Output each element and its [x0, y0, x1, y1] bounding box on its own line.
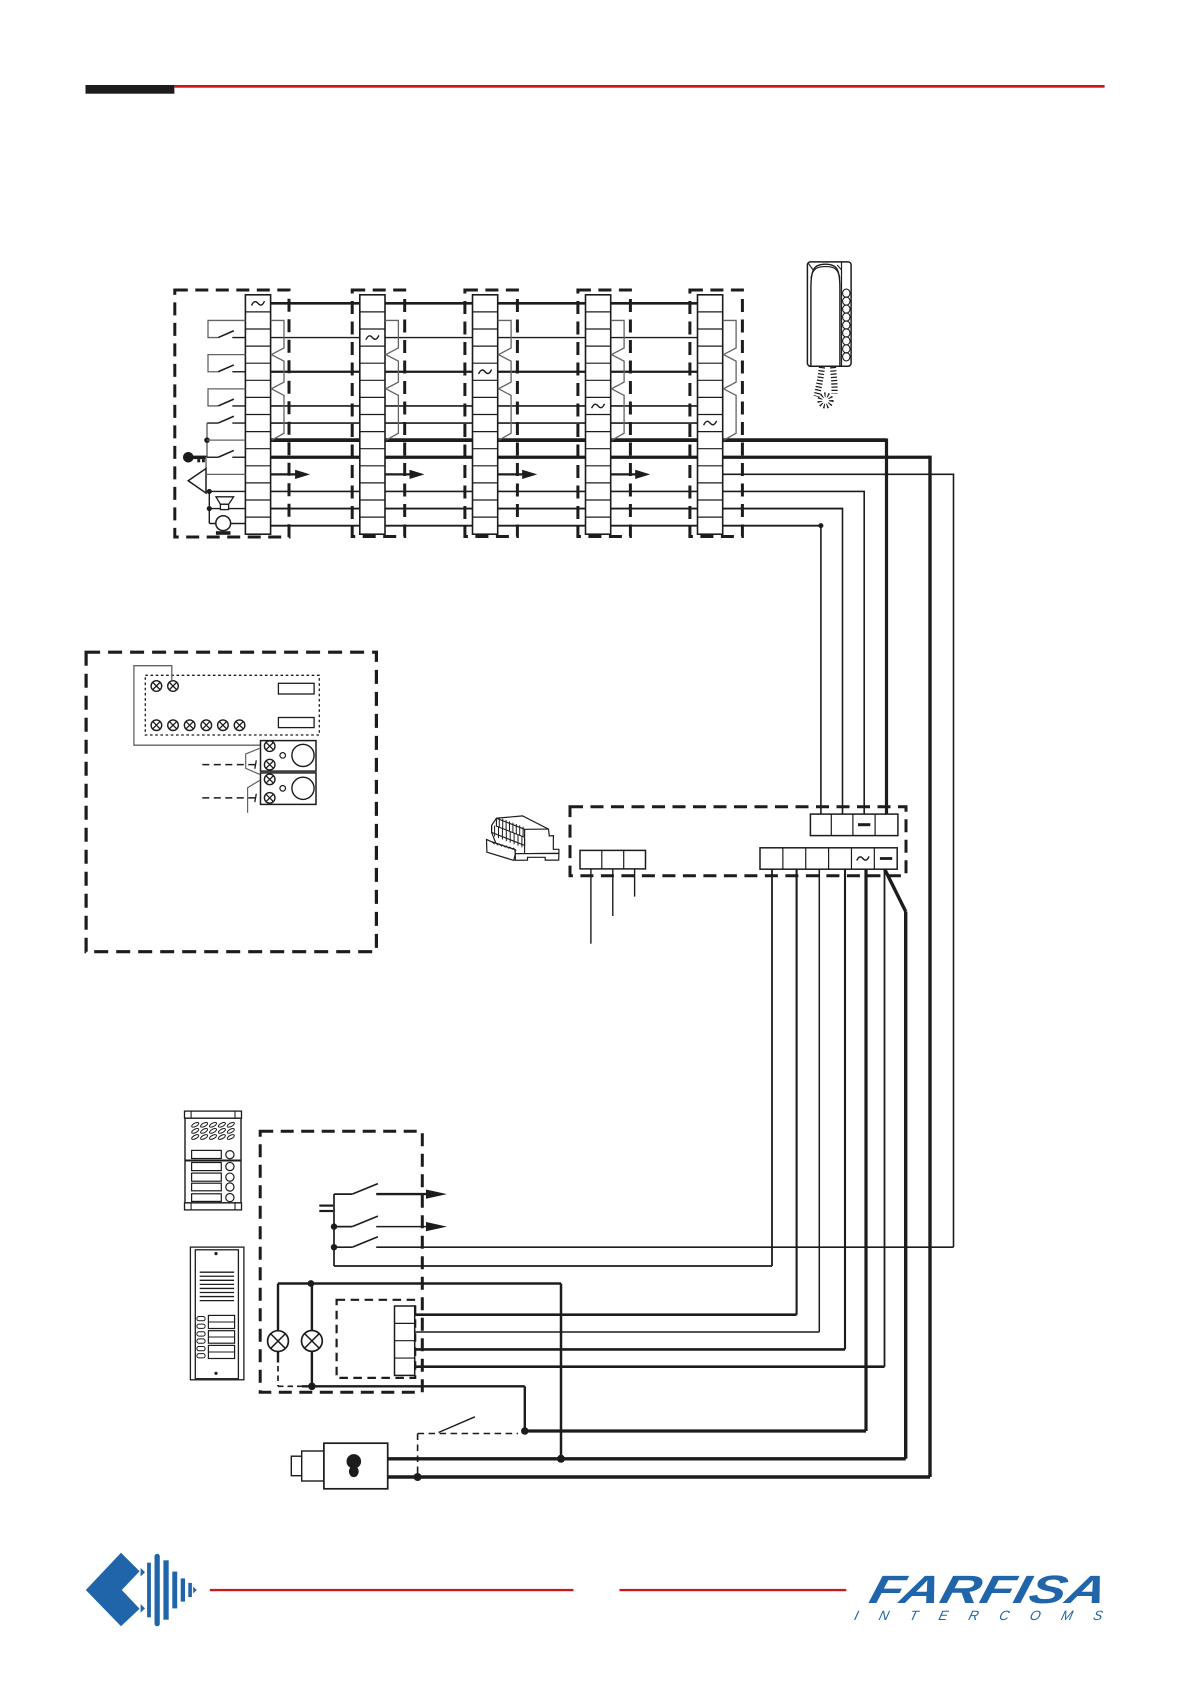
- wire relay3 down: [818, 869, 820, 1332]
- dashed release switch: [418, 1433, 518, 1435]
- door panel icon A: [185, 1111, 242, 1210]
- wire bus L6 thick: [271, 438, 887, 442]
- terminal strip intercom 5: [698, 295, 723, 534]
- header red rule: [174, 85, 1104, 88]
- terminal strip intercom 2: [360, 295, 385, 534]
- rail to amplifier: [205, 457, 207, 468]
- key symbol: [183, 452, 194, 463]
- inner dashed box speaker unit: [337, 1300, 416, 1378]
- wire diagonal from minus cell: [885, 869, 906, 911]
- wire riser right outer: [928, 456, 931, 1477]
- label window 2: [278, 718, 314, 728]
- wire riser to pushbutton line: [953, 474, 955, 1248]
- wire relay2 down: [796, 869, 798, 1314]
- terminal strip door 4-way: [395, 1306, 415, 1375]
- relay block 1: [261, 741, 317, 772]
- wire riser to relay cell1: [820, 525, 822, 814]
- arrow bus stub 1: [271, 473, 297, 475]
- junction lamp return: [308, 1383, 316, 1391]
- junction at bus L11 corner: [818, 523, 823, 528]
- dashed stub wire 2: [202, 797, 260, 799]
- wire down to release junction: [524, 1386, 526, 1431]
- dashed box intercom 2: [352, 290, 405, 537]
- capacitor bars: [319, 1205, 333, 1207]
- dashed box door station: [260, 1131, 422, 1392]
- wire bus L2: [271, 337, 699, 339]
- switch P1 (button): [208, 320, 245, 337]
- wire bus L8 after strip5: [723, 473, 954, 475]
- wire bus L4: [271, 405, 699, 407]
- wire bus L3: [271, 371, 699, 373]
- electric lock: [291, 1443, 387, 1489]
- ACI logo small tips: [141, 1568, 145, 1577]
- rail left intercom1: [206, 423, 208, 457]
- lock wire 1: [388, 1457, 906, 1460]
- arrow bus stub 2: [385, 473, 411, 475]
- wire riser to relay cell3: [863, 491, 865, 814]
- wire rail bottom to relay1: [334, 1265, 772, 1267]
- terminal strip 4-way top: [810, 814, 898, 836]
- terminal strip 3-way: [580, 850, 646, 869]
- jumper bracket strip 1: [271, 320, 284, 440]
- ACI logo stripes: [147, 1563, 151, 1618]
- ACI logo diamond: [86, 1553, 140, 1627]
- microphone symbol: [216, 497, 234, 505]
- jumper bracket strip 3: [498, 320, 511, 440]
- wire bus L5: [271, 422, 699, 424]
- release wire: [525, 1429, 866, 1432]
- switch hook B: [207, 456, 218, 458]
- wire down to lock line: [560, 1284, 563, 1459]
- label window 1: [278, 683, 314, 694]
- wire amp out to cell12: [206, 490, 245, 492]
- wire amp to cell11: [206, 473, 245, 475]
- wire mains loop: [134, 666, 261, 746]
- junction rail 2: [331, 1223, 337, 1229]
- terminal screws bottom row: [151, 720, 162, 731]
- header black bar: [86, 85, 175, 94]
- junction rail 3: [331, 1244, 337, 1250]
- jumper bracket strip 2: [385, 320, 398, 440]
- handset icon: [807, 262, 851, 406]
- wire riser to relay cell2: [842, 508, 844, 814]
- wire relay4 down: [844, 869, 846, 1349]
- junction mic: [207, 506, 212, 511]
- pigtail block2: [248, 780, 261, 813]
- wire door t1: [415, 1313, 797, 1316]
- switch P3 (button): [208, 389, 245, 406]
- junction amp out: [207, 489, 212, 494]
- wire relay6 down: [884, 869, 886, 1366]
- rail mic/buzzer: [208, 491, 210, 523]
- dashed box group relay: [570, 807, 906, 876]
- pigtail wire c: [634, 869, 636, 897]
- switch P2 (button): [208, 355, 245, 372]
- wire buzzer row: [209, 523, 245, 525]
- terminal strip intercom 4: [586, 295, 611, 534]
- terminal strip intercom 1: [245, 295, 270, 534]
- lamp supply wire top: [278, 1282, 561, 1285]
- dashed lamp1 return: [277, 1366, 279, 1386]
- lock wire 2: [388, 1475, 930, 1478]
- switch door 1 with arrow: [334, 1193, 352, 1195]
- lamp 1: [277, 1284, 279, 1331]
- wire door t4: [415, 1365, 885, 1368]
- junction release: [521, 1427, 529, 1435]
- footer red rule left: [210, 1589, 574, 1591]
- relay block 2: [261, 773, 317, 805]
- pigtail wire a: [590, 869, 592, 944]
- svg-text:FARFISA: FARFISA: [865, 1568, 1112, 1611]
- wire bus L11: [271, 525, 821, 527]
- arrow bus stub 3: [498, 473, 524, 475]
- arrow bus stub 4: [611, 473, 637, 475]
- power supply unit outline (dotted): [145, 675, 319, 735]
- terminal screws top: [151, 681, 162, 692]
- junction lock2: [414, 1473, 422, 1481]
- wire bus L7 thick: [271, 456, 930, 459]
- terminal strip 6-way bottom: [760, 848, 897, 869]
- footer red rule right: [620, 1589, 847, 1591]
- wire relay1 down: [771, 869, 773, 1266]
- lamp 2: [311, 1284, 313, 1331]
- wire door t2: [415, 1331, 820, 1333]
- wire mic row: [209, 508, 245, 510]
- wire riser lock1: [904, 912, 907, 1459]
- switch door 2 with arrow: [334, 1226, 352, 1228]
- jumper bracket strip 5: [723, 320, 736, 440]
- door panel icon B: [190, 1247, 244, 1380]
- terminal strip intercom 3: [473, 295, 498, 534]
- dashed box power supply: [86, 652, 376, 952]
- dashed box intercom 4: [578, 290, 631, 537]
- wire riser to relay cell4: [885, 439, 888, 815]
- switch door 3: [334, 1246, 352, 1248]
- buzzer symbol: [216, 516, 231, 531]
- dashed stub wire 1: [202, 764, 260, 766]
- dashed box intercom 3: [465, 290, 518, 537]
- jumper wire blocks: [246, 748, 260, 774]
- dashed box intercom 5: [690, 290, 743, 537]
- wire bus L10: [271, 508, 843, 510]
- pigtail wire b: [612, 869, 614, 916]
- dashed box intercom 1: [175, 290, 289, 537]
- wire bus L1: [271, 302, 699, 305]
- wire bus L9: [271, 490, 865, 492]
- junction lamp top: [308, 1280, 315, 1287]
- wire relay5 down (release): [864, 869, 867, 1431]
- amplifier triangle: [188, 469, 206, 494]
- wire rail to cell9: [207, 439, 245, 441]
- junction rail row9: [204, 437, 210, 443]
- jumper bracket strip 4: [611, 320, 624, 440]
- wire door t3: [415, 1348, 845, 1351]
- pushbutton rail: [333, 1194, 335, 1266]
- switch hook A: [207, 422, 218, 424]
- lamp return wire: [302, 1385, 525, 1387]
- DIN module icon: [487, 816, 559, 861]
- handset cord: [817, 367, 823, 397]
- junction lock1: [557, 1455, 565, 1463]
